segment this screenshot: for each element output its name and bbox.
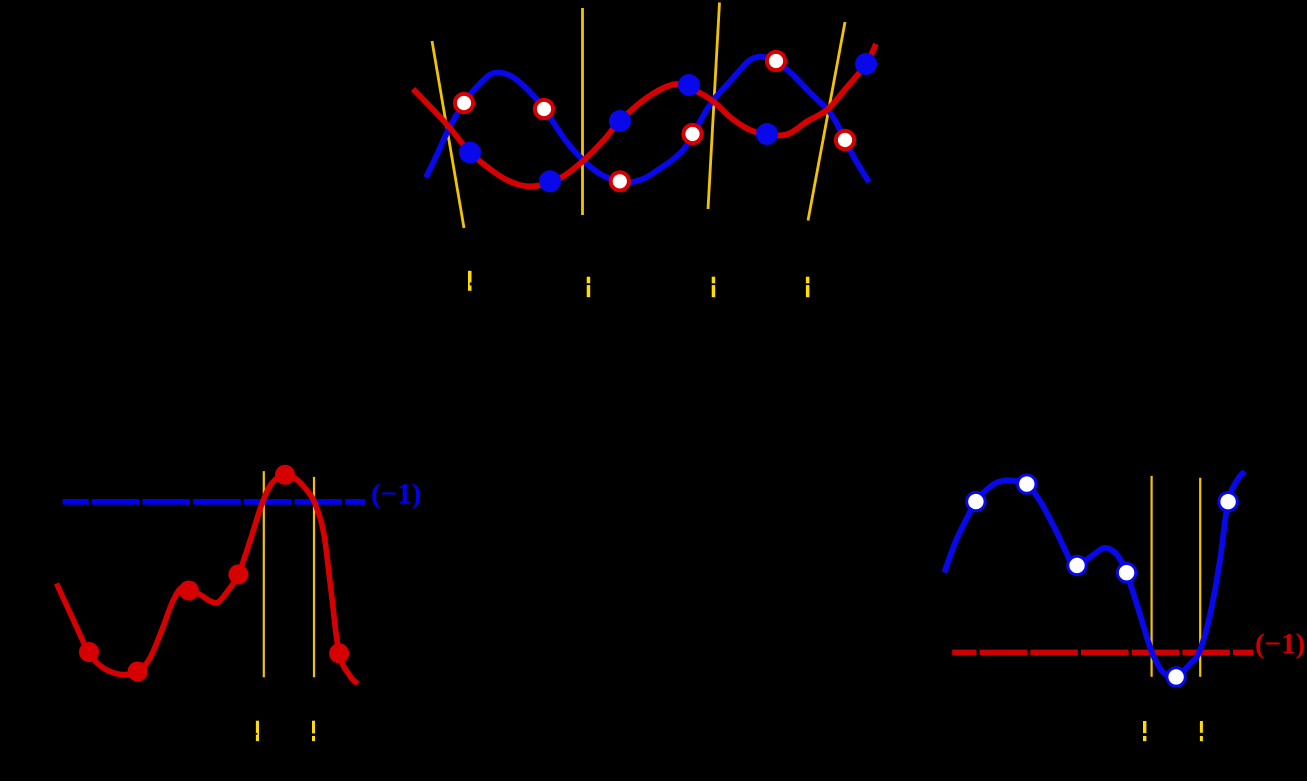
svg-text:(−1): (−1) [371, 478, 421, 510]
svg-text:(−1): (−1) [1255, 628, 1305, 660]
